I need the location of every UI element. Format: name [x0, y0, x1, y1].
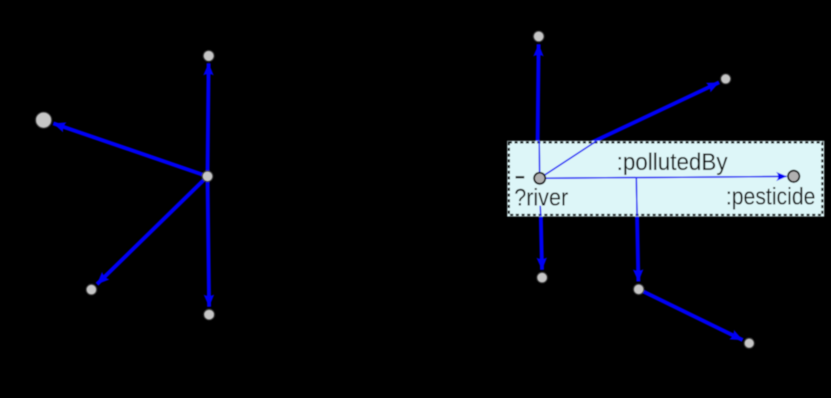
node below-1 [537, 272, 547, 282]
query box (dashed, cyan) [507, 141, 824, 217]
wire thin R diagonal [540, 141, 597, 178]
node river [534, 173, 545, 184]
wire edge R down to below node [540, 178, 542, 269]
wire edge C to bottom node [208, 176, 210, 306]
wire edge R to top node [538, 44, 539, 143]
node left-bottom [204, 309, 215, 320]
svg-text:?river: ?river [514, 185, 568, 212]
node upper-right [721, 74, 731, 84]
node left-big [36, 112, 52, 128]
svg-text::pesticide: :pesticide [726, 183, 816, 210]
wire edge C to top node [208, 63, 209, 176]
node left-center [202, 171, 213, 182]
node left-top [203, 51, 214, 62]
wire edge C to big left node [53, 123, 207, 176]
wire thin mid down [635, 178, 638, 216]
wire thin R up [538, 141, 541, 178]
svg-text::pollutedBy: :pollutedBy [617, 149, 728, 176]
node below-2 [634, 284, 644, 294]
wire thin arrow R to pesticide [540, 176, 787, 178]
wire edge mid down to second below node [636, 178, 638, 282]
node bottom-right [744, 338, 754, 348]
wire edge below node to bottom-right node [639, 289, 743, 340]
wire thin R down [539, 206, 542, 216]
wire edge R to upper-right node [591, 82, 720, 143]
node pesticide [788, 171, 799, 182]
wire edge C to bottom-left node [97, 176, 208, 284]
node left-bottomleft [86, 284, 96, 294]
label minus [516, 176, 525, 178]
node right-top [533, 31, 544, 42]
